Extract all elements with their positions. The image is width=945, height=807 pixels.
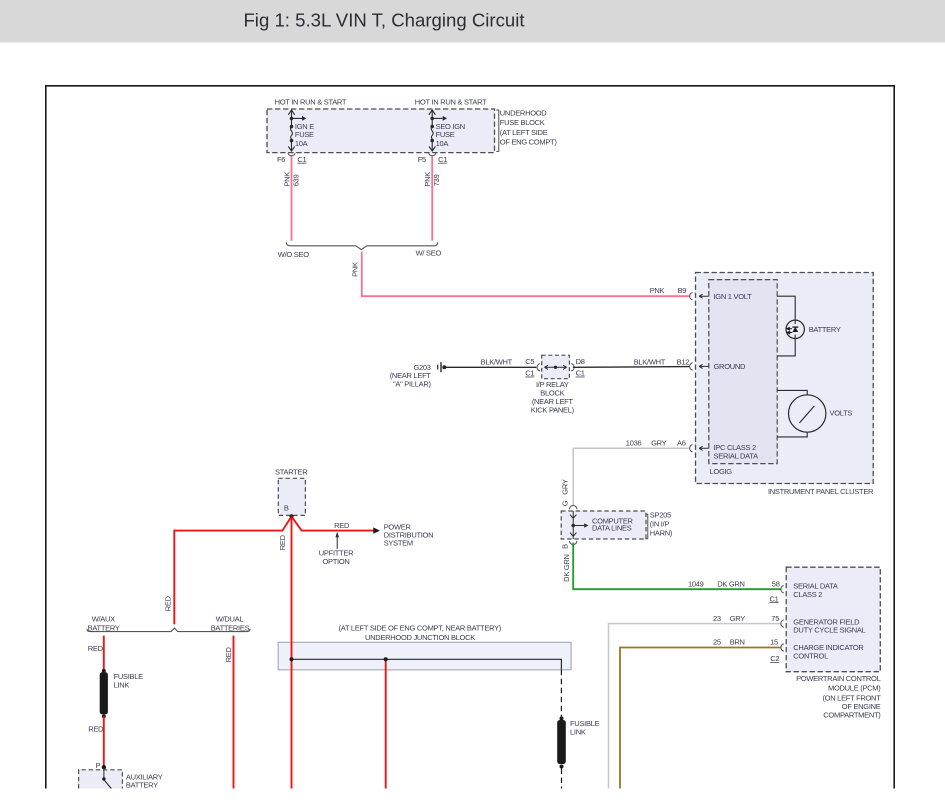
svg-text:RED: RED xyxy=(278,534,287,550)
starter box xyxy=(278,478,305,515)
svg-text:DK GRN: DK GRN xyxy=(562,554,571,582)
ground G203 xyxy=(438,362,447,372)
svg-text:RED: RED xyxy=(88,724,104,733)
svg-text:PNK: PNK xyxy=(282,172,291,187)
I/P relay block box xyxy=(542,355,570,379)
svg-text:OPTION: OPTION xyxy=(322,557,349,566)
logic inner box xyxy=(709,280,777,464)
svg-text:D8: D8 xyxy=(576,357,585,366)
fusible link (left) xyxy=(102,669,106,673)
svg-text:UNDERHOOD JUNCTION BLOCK: UNDERHOOD JUNCTION BLOCK xyxy=(365,633,475,642)
underhood fuse block label bracket xyxy=(496,110,499,151)
connector C1 cup under F6 xyxy=(288,153,295,156)
auxiliary battery relay box xyxy=(79,770,123,789)
svg-text:RED: RED xyxy=(224,647,233,663)
svg-text:COMPARTMENT): COMPARTMENT) xyxy=(823,710,881,719)
pin 58 connector xyxy=(781,586,784,593)
svg-text:VOLTS: VOLTS xyxy=(830,409,853,418)
svg-text:GRY: GRY xyxy=(730,614,746,623)
wire RED from junction block down xyxy=(385,659,387,788)
svg-text:HOT IN RUN & START: HOT IN RUN & START xyxy=(415,98,487,107)
svg-text:DATA LINES: DATA LINES xyxy=(592,523,632,532)
svg-text:B9: B9 xyxy=(678,286,687,295)
svg-text:75: 75 xyxy=(771,614,779,623)
svg-text:CLASS 2: CLASS 2 xyxy=(793,590,822,599)
svg-text:GROUND: GROUND xyxy=(714,362,747,371)
wire GRY 1036 A6 to SP205 xyxy=(573,448,689,505)
svg-text:F6: F6 xyxy=(277,155,285,164)
svg-text:1036: 1036 xyxy=(626,439,642,448)
wire PNK to IPC B9 xyxy=(362,252,690,297)
svg-text:739: 739 xyxy=(432,174,441,186)
svg-text:P: P xyxy=(96,761,101,770)
splice internal wiring xyxy=(570,511,576,539)
svg-text:23: 23 xyxy=(713,614,721,623)
svg-text:SERIAL DATA: SERIAL DATA xyxy=(714,452,759,461)
svg-text:10A: 10A xyxy=(436,139,449,148)
svg-text:SP205: SP205 xyxy=(650,511,671,520)
wire BRN 25 xyxy=(620,648,781,789)
svg-text:58: 58 xyxy=(772,579,780,588)
svg-text:W/O SEO: W/O SEO xyxy=(278,250,309,259)
wire RED w/dual batteries xyxy=(233,636,235,789)
svg-text:UNDERHOOD: UNDERHOOD xyxy=(500,108,548,117)
svg-text:(AT LEFT SIDE OF ENG COMPT, NE: (AT LEFT SIDE OF ENG COMPT, NEAR BATTERY… xyxy=(339,624,502,633)
svg-text:"A" PILLAR): "A" PILLAR) xyxy=(393,379,431,388)
wire GRY 23 xyxy=(609,624,781,789)
svg-text:25: 25 xyxy=(713,638,721,647)
wire RED starter branch right to power dist xyxy=(292,516,374,530)
svg-text:IGN 1 VOLT: IGN 1 VOLT xyxy=(714,292,753,301)
svg-text:PNK: PNK xyxy=(423,172,432,187)
pin A6 connector xyxy=(690,445,693,452)
underhood fuse block box xyxy=(267,109,495,153)
svg-text:W/DUAL: W/DUAL xyxy=(216,615,244,624)
arrow to power distribution system xyxy=(373,527,380,533)
wire dashed below fusible link xyxy=(561,769,563,789)
svg-text:BLK/WHT: BLK/WHT xyxy=(634,357,666,366)
wire PNK 639 xyxy=(291,156,293,241)
svg-text:(IN I/P: (IN I/P xyxy=(650,519,670,528)
svg-text:OF ENG COMPT): OF ENG COMPT) xyxy=(500,138,558,147)
wire BLK/WHT G203 to C5 xyxy=(446,366,536,368)
svg-text:1049: 1049 xyxy=(688,579,704,588)
fuse F5 SEO IGN FUSE 10A xyxy=(429,110,447,151)
pin 15 connector xyxy=(781,644,784,651)
brace battery options xyxy=(87,628,250,631)
svg-text:C1: C1 xyxy=(576,369,585,378)
svg-text:BATTERY: BATTERY xyxy=(809,325,841,334)
svg-text:B: B xyxy=(284,504,289,513)
relay block pass-through connector xyxy=(537,364,540,371)
pin B9 connector xyxy=(690,293,693,300)
wire BLK/WHT D8 to B12 xyxy=(573,366,689,369)
svg-text:RED: RED xyxy=(88,644,104,653)
svg-text:MODULE (PCM): MODULE (PCM) xyxy=(828,684,881,693)
svg-text:PNK: PNK xyxy=(350,262,359,277)
connector C1 cup under F5 xyxy=(429,153,436,156)
svg-text:LINK: LINK xyxy=(114,680,130,689)
splice SP205 entry connector xyxy=(570,506,577,510)
svg-text:A6: A6 xyxy=(677,439,686,448)
svg-text:PNK: PNK xyxy=(650,286,665,295)
fusible link (right) xyxy=(560,716,564,720)
wire PNK 739 xyxy=(431,156,433,241)
svg-text:10A: 10A xyxy=(295,139,308,148)
svg-text:DUTY CYCLE SIGNAL: DUTY CYCLE SIGNAL xyxy=(793,626,865,635)
node P junction xyxy=(102,765,106,769)
svg-text:RED: RED xyxy=(163,595,172,611)
svg-text:LINK: LINK xyxy=(570,727,586,736)
volts gauge xyxy=(789,395,826,432)
svg-text:BRN: BRN xyxy=(730,638,745,647)
battery LED symbol xyxy=(793,327,799,332)
relay switch xyxy=(103,769,105,777)
fuse F6 IGN E FUSE 10A xyxy=(288,110,306,151)
svg-text:15: 15 xyxy=(770,638,778,647)
svg-text:C2: C2 xyxy=(770,654,779,663)
upfitter option arrow xyxy=(336,537,338,549)
node B junction dot xyxy=(289,514,293,518)
svg-text:LOGIG: LOGIG xyxy=(710,467,733,476)
wire dashed to fusible link (right) xyxy=(560,670,562,717)
svg-text:BATTERIES: BATTERIES xyxy=(211,623,250,632)
pin B12 connector xyxy=(690,363,693,370)
svg-text:B: B xyxy=(561,544,570,549)
svg-text:STARTER: STARTER xyxy=(275,467,308,476)
svg-text:SYSTEM: SYSTEM xyxy=(384,538,413,547)
computer data lines box SP205 xyxy=(561,511,646,539)
svg-text:BATTERY: BATTERY xyxy=(88,623,120,632)
node junction dot 2 xyxy=(384,657,388,661)
svg-text:C1: C1 xyxy=(770,594,779,603)
svg-text:G: G xyxy=(561,500,570,506)
header bar xyxy=(0,0,945,43)
wire RED starter down xyxy=(291,516,293,788)
SP205 label bracket xyxy=(645,514,648,539)
svg-text:GRY: GRY xyxy=(561,479,570,495)
diagram frame (sides+top only) xyxy=(46,86,894,789)
wire DK GRN 1049 xyxy=(573,543,780,590)
svg-text:BATTERY: BATTERY xyxy=(126,781,158,790)
svg-text:W/ SEO: W/ SEO xyxy=(416,249,442,258)
pin 75 connector xyxy=(781,620,784,627)
svg-text:HARN): HARN) xyxy=(650,528,673,537)
svg-text:F5: F5 xyxy=(418,155,426,164)
volts gauge wiring xyxy=(777,390,807,437)
svg-text:C5: C5 xyxy=(525,357,534,366)
svg-text:W/AUX: W/AUX xyxy=(92,615,115,624)
svg-text:DK GRN: DK GRN xyxy=(717,579,745,588)
junction block bus wire xyxy=(292,659,562,670)
battery telltale wiring xyxy=(777,296,795,356)
svg-text:KICK PANEL): KICK PANEL) xyxy=(531,406,575,415)
svg-text:GRY: GRY xyxy=(651,439,667,448)
wire RED to aux relay xyxy=(103,716,105,767)
svg-text:Fig 1: 5.3L VIN T, Charging Ci: Fig 1: 5.3L VIN T, Charging Circuit xyxy=(243,10,525,31)
svg-text:C1: C1 xyxy=(297,155,306,164)
battery telltale lamp xyxy=(786,320,804,338)
svg-text:HOT IN RUN & START: HOT IN RUN & START xyxy=(275,98,347,107)
svg-text:FUSE: FUSE xyxy=(436,130,455,139)
PCM box xyxy=(786,567,880,672)
svg-text:(AT LEFT SIDE: (AT LEFT SIDE xyxy=(500,128,548,137)
instrument panel cluster box U1 xyxy=(696,273,874,484)
svg-text:CONTROL: CONTROL xyxy=(793,652,828,661)
node junction dot 1 xyxy=(290,657,294,661)
wire RED starter branch left xyxy=(174,516,291,624)
svg-text:B12: B12 xyxy=(677,357,690,366)
svg-text:POWERTRAIN CONTROL: POWERTRAIN CONTROL xyxy=(796,674,881,683)
svg-text:RED: RED xyxy=(334,521,350,530)
svg-text:639: 639 xyxy=(291,174,300,186)
svg-text:FUSE BLOCK: FUSE BLOCK xyxy=(500,118,545,127)
svg-text:C1: C1 xyxy=(525,369,534,378)
splice SP205 exit connector xyxy=(570,541,577,545)
svg-text:FUSE: FUSE xyxy=(295,130,314,139)
svg-text:INSTRUMENT PANEL CLUSTER: INSTRUMENT PANEL CLUSTER xyxy=(768,487,874,496)
brace W/O SEO / W/ SEO xyxy=(286,242,438,249)
underhood junction block xyxy=(278,642,571,670)
svg-text:C1: C1 xyxy=(438,155,447,164)
svg-text:BLK/WHT: BLK/WHT xyxy=(481,357,513,366)
wire RED w/aux battery xyxy=(103,636,105,671)
